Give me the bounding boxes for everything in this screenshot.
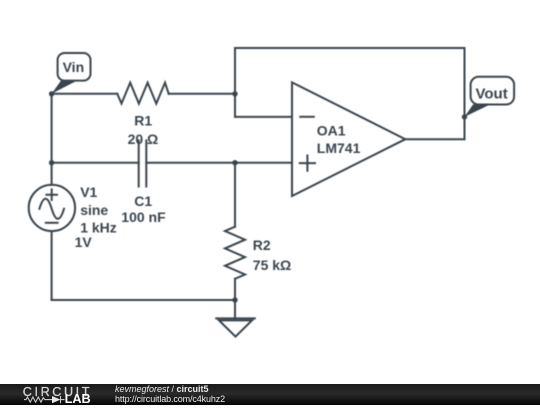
label Vout	[471, 77, 514, 105]
wire minus input	[235, 116, 292, 118]
svg-text:Vin: Vin	[63, 59, 85, 75]
wire C1 left	[52, 162, 139, 164]
svg-text:100 nF: 100 nF	[121, 209, 166, 225]
label Vin	[58, 53, 91, 81]
voltage source V1	[29, 185, 75, 231]
svg-text:sine: sine	[80, 202, 108, 218]
wire feedback top	[235, 47, 465, 49]
svg-text:Vout: Vout	[476, 85, 508, 102]
label OA1	[317, 123, 361, 157]
svg-text:20 Ω: 20 Ω	[128, 131, 159, 147]
wire C1 right to node D	[146, 162, 235, 164]
label Vin tail	[52, 81, 77, 94]
svg-text:1 kHz: 1 kHz	[80, 219, 117, 235]
svg-text:R1: R1	[134, 113, 152, 129]
node plus/C1/R2	[232, 160, 237, 165]
resistor R2	[225, 227, 245, 279]
resistor R1	[117, 83, 168, 104]
node Vout	[462, 114, 467, 119]
wire R2 top lead	[234, 163, 236, 227]
node ground junction	[232, 297, 237, 302]
footer text	[115, 385, 225, 404]
svg-text:OA1: OA1	[317, 123, 346, 139]
label C1 value	[121, 193, 166, 225]
wire bottom rail	[52, 299, 235, 301]
wire output vertical right	[464, 48, 466, 139]
svg-text:C1: C1	[134, 193, 152, 209]
footer bar	[0, 384, 540, 405]
wire V1 to bottom rail	[51, 231, 53, 300]
label R2 value	[253, 237, 291, 273]
wire left vertical Vin to V1	[51, 94, 53, 185]
ground	[216, 317, 255, 319]
op-amp OA1	[292, 82, 405, 196]
wire R1 to node C	[169, 93, 235, 95]
svg-text:1V: 1V	[75, 234, 93, 250]
wire R2 bottom lead	[234, 279, 236, 300]
label R1 value	[128, 113, 159, 148]
wire feedback vertical left	[234, 48, 236, 117]
svg-text:V1: V1	[80, 184, 97, 200]
svg-text:75 kΩ: 75 kΩ	[253, 257, 291, 273]
wire plus input	[235, 162, 292, 164]
svg-text:LAB: LAB	[65, 392, 91, 405]
CircuitLab logo	[22, 385, 102, 405]
node feedback/R1	[232, 91, 237, 96]
label V1 value	[75, 184, 117, 250]
wire output	[405, 138, 464, 140]
wire ground lead	[234, 300, 236, 318]
svg-text:LM741: LM741	[317, 140, 361, 156]
node C1 junction	[49, 160, 54, 165]
svg-text:R2: R2	[253, 237, 271, 253]
label Vout tail	[465, 105, 491, 117]
wire Vin node to R1	[52, 93, 118, 95]
capacitor C1	[139, 141, 147, 187]
node Vin junction	[49, 91, 54, 96]
